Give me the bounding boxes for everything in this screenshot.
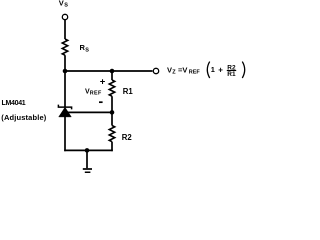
svg-text:+: + — [100, 77, 106, 88]
svg-text:V: V — [167, 65, 172, 74]
svg-text:REF: REF — [90, 90, 102, 96]
resistor R1 — [109, 80, 114, 96]
svg-text:+: + — [218, 65, 223, 74]
wire Rs bottom to node A — [64, 55, 66, 71]
node D junction dot (ground tap) — [85, 148, 90, 153]
terminal Vs (open circle) — [62, 14, 67, 19]
svg-text:S: S — [64, 3, 68, 9]
svg-text:R1: R1 — [227, 71, 236, 78]
resistor R2 — [109, 126, 114, 142]
formula left parenthesis — [207, 62, 209, 78]
svg-text:S: S — [85, 47, 89, 53]
wire top rail node A to output terminal — [65, 70, 153, 72]
wire node C down to R2 top — [111, 112, 113, 125]
formula right parenthesis — [242, 62, 244, 78]
svg-text:R2: R2 — [122, 133, 133, 142]
node B junction dot (top of R1) — [110, 69, 115, 74]
node C junction dot — [110, 110, 115, 115]
wire R1 bottom to node C — [111, 96, 113, 112]
svg-text:=V: =V — [178, 65, 187, 74]
wire bottom rail — [64, 149, 113, 151]
terminal Vz (open circle) — [153, 68, 158, 73]
svg-text:V: V — [59, 0, 64, 7]
wire feedback from LM4041 to node C — [67, 111, 112, 113]
wire R2 bottom to bottom rail — [111, 142, 113, 152]
resistor RS — [62, 39, 67, 55]
wire node B down to R1 top — [111, 71, 113, 80]
label - (bottom of VREF) — [99, 101, 103, 103]
svg-text:1: 1 — [211, 65, 215, 74]
wire node A down to LM4041 cathode — [64, 71, 66, 107]
ground — [83, 168, 92, 170]
svg-text:(Adjustable): (Adjustable) — [1, 113, 46, 122]
diode LM4041 zener cathode bar — [58, 105, 71, 110]
diode LM4041 anode triangle — [59, 107, 72, 117]
svg-text:LM4041: LM4041 — [2, 100, 26, 107]
svg-text:REF: REF — [189, 70, 201, 76]
svg-text:R1: R1 — [123, 87, 134, 96]
formula fraction bar — [227, 70, 236, 72]
wire node D to ground — [86, 150, 88, 168]
node A junction dot — [63, 69, 68, 74]
wire LM4041 anode down to bottom rail — [64, 117, 66, 152]
wire Vs terminal to Rs top — [64, 20, 66, 39]
